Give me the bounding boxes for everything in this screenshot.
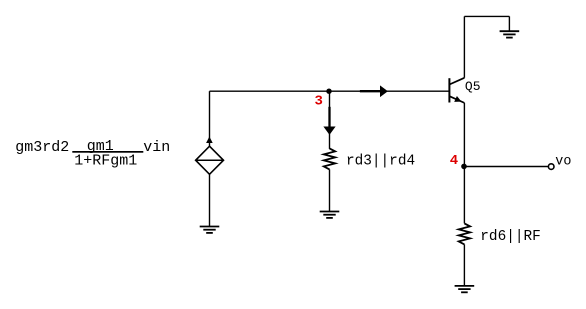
svg-text:Q5: Q5 — [465, 79, 481, 94]
wire riser from source to bus — [209, 91, 211, 146]
ground below rd3||rd4 — [320, 212, 340, 218]
wire source to ground — [209, 174, 211, 226]
current source G1 arrow — [206, 137, 213, 144]
current arrow right on bus — [380, 85, 388, 97]
ground top right — [500, 31, 520, 37]
wire node4 down to resistor — [463, 167, 465, 224]
resistor rd3||rd4 — [324, 148, 335, 169]
current arrow down on node3 branch — [323, 127, 335, 135]
output terminal circle — [548, 164, 554, 170]
transistor Q5 emitter diagonal — [449, 96, 464, 103]
transistor Q5 base bar — [448, 78, 450, 102]
resistor rd6||RF — [459, 223, 470, 244]
wire stub to top ground — [508, 16, 510, 31]
wire collector top horizontal — [464, 15, 509, 17]
wire resistor to bottom ground — [463, 244, 465, 286]
wire emitter down to node 4 — [463, 103, 465, 167]
svg-text:vo: vo — [555, 154, 571, 169]
svg-text:rd3||rd4: rd3||rd4 — [346, 154, 415, 170]
ground below source — [200, 227, 220, 233]
svg-text:3: 3 — [315, 94, 323, 110]
wire resistor to ground — [329, 169, 331, 211]
wire node4 to output — [464, 166, 548, 168]
current arrow right on bus (tail) — [360, 90, 381, 92]
svg-text:rd6||RF: rd6||RF — [480, 229, 540, 245]
svg-text:4: 4 — [450, 153, 458, 169]
wire top bus node3 to base — [210, 90, 450, 92]
svg-text:1+RFgm1: 1+RFgm1 — [74, 152, 137, 169]
wire collector up — [463, 16, 465, 77]
transistor Q5 emitter arrow — [454, 96, 461, 102]
wire node3 down to resistor — [329, 91, 331, 149]
current source G1 crossline — [196, 159, 224, 161]
node 4 junction dot — [461, 164, 467, 170]
svg-text:vin: vin — [143, 139, 170, 156]
transistor Q5 collector diagonal — [449, 78, 464, 85]
node 3 junction dot — [326, 89, 331, 94]
svg-text:gm3rd2: gm3rd2 — [15, 139, 69, 156]
current source G1 diamond — [196, 146, 224, 174]
gain fraction bar — [72, 151, 143, 153]
current arrow down on node3 branch (tail) — [328, 107, 330, 127]
ground bottom right — [455, 286, 475, 292]
